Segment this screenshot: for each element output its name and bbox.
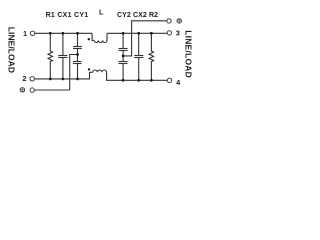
svg-text:3: 3 <box>176 29 180 38</box>
svg-text:L: L <box>99 10 104 17</box>
svg-text:LINE/LOAD: LINE/LOAD <box>184 30 194 78</box>
svg-text:LINE/LOAD: LINE/LOAD <box>7 27 17 73</box>
svg-text:CY2 CX2 R2: CY2 CX2 R2 <box>117 12 158 19</box>
svg-text:2: 2 <box>22 74 26 83</box>
svg-text:1: 1 <box>23 29 27 38</box>
svg-text:R1 CX1 CY1: R1 CX1 CY1 <box>46 12 89 19</box>
